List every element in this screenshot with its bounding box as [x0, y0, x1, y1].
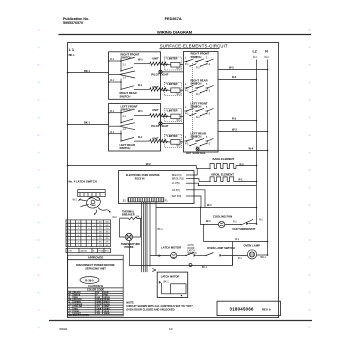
wire CA pin down [194, 190, 205, 207]
svg-text:BK-1: BK-1 [84, 69, 91, 73]
svg-text:W-1: W-1 [206, 219, 211, 223]
svg-text:W-1: W-1 [110, 111, 115, 113]
svg-text:9: 9 [78, 245, 79, 247]
svg-text:W-4: W-4 [249, 147, 254, 151]
wire L1 to box C [68, 124, 109, 126]
svg-text:SERVICING UNIT: SERVICING UNIT [85, 267, 106, 271]
svg-text:265: 265 [99, 241, 102, 243]
UL oval logo [80, 277, 99, 284]
svg-text:BK-1: BK-1 [164, 281, 170, 283]
svg-text:4: 4 [78, 228, 79, 230]
svg-text:L2: L2 [253, 50, 257, 54]
svg-text:2: 2 [68, 225, 69, 227]
svg-text:SWITCH: SWITCH [121, 107, 132, 111]
svg-text:295: 295 [106, 241, 109, 243]
svg-text:255: 255 [99, 238, 102, 240]
svg-text:BK: BK [136, 216, 140, 218]
svg-text:6: 6 [68, 238, 69, 240]
svg-text:REV. A: REV. A [262, 307, 271, 311]
svg-text:BROIL P(2): BROIL P(2) [172, 179, 184, 181]
svg-text:R-39-5: R-39-5 [85, 278, 94, 282]
wire bundle from connector [142, 202, 156, 272]
svg-text:* LIMITER: * LIMITER [166, 57, 178, 61]
svg-text:215: 215 [99, 225, 102, 227]
limiter C2 [164, 134, 181, 147]
svg-text:* LIMITER: * LIMITER [166, 134, 178, 138]
L2 bus wire [256, 60, 258, 225]
svg-text:SURFACE-ELEMENTS-CIRCUIT: SURFACE-ELEMENTS-CIRCUIT [160, 44, 228, 49]
svg-text:DISCONNECT POWER BEFORE: DISCONNECT POWER BEFORE [76, 263, 115, 267]
svg-text:CAUTION W: CAUTION W [88, 284, 103, 288]
svg-text:7: 7 [68, 241, 69, 243]
svg-text:x: x [94, 225, 95, 227]
switch RIGHT REAR SWITCH [108, 77, 134, 90]
pilot light (C) [159, 122, 162, 125]
svg-text:BK-1: BK-1 [158, 229, 164, 231]
surface element box C [109, 104, 161, 152]
svg-text:R-2: R-2 [240, 162, 245, 166]
svg-text:8: 8 [78, 241, 79, 243]
part number box [217, 301, 280, 315]
limiter A2 [164, 83, 181, 96]
svg-text:R-2: R-2 [232, 75, 237, 79]
chart legend row [66, 248, 111, 252]
svg-text:OVEN DOOR CLOSED AND UNLOCKED.: OVEN DOOR CLOSED AND UNLOCKED. [126, 307, 175, 311]
svg-text:WIRING DIAGRAM: WIRING DIAGRAM [157, 30, 193, 35]
svg-text:CIRCUIT SHOWN WITH ALL CONTROL: CIRCUIT SHOWN WITH ALL CONTROLS SET TO "… [126, 304, 194, 308]
svg-text:x: x [94, 238, 95, 240]
switch body plate [78, 190, 106, 197]
svg-text:APPROVED: APPROVED [88, 256, 103, 260]
switch block RIGHT FRONT [185, 52, 214, 70]
svg-text:W-1: W-1 [177, 94, 182, 96]
svg-text:N: N [265, 50, 268, 54]
svg-text:245: 245 [99, 235, 102, 237]
wire probe bottom loop [130, 241, 233, 266]
svg-text:EOC6 V6: EOC6 V6 [135, 178, 145, 180]
switch knob blob [85, 195, 102, 210]
svg-text:R-1: R-1 [138, 135, 143, 139]
svg-text:* LIMITER: * LIMITER [166, 108, 178, 112]
svg-text:LARGE: LARGE [80, 250, 87, 253]
EOC pin wires routing [194, 168, 199, 185]
wire box B to N (top) [218, 69, 268, 71]
pointer arrows [79, 198, 89, 206]
svg-text:W-1: W-1 [110, 80, 115, 82]
svg-text:W-2: W-2 [229, 65, 234, 69]
svg-text:8: 8 [68, 245, 69, 247]
svg-text:NOTE:: NOTE: [126, 300, 134, 304]
color code table [68, 288, 124, 317]
svg-text:W-1: W-1 [235, 239, 240, 241]
main diagram border box [68, 43, 279, 318]
switch LEFT REAR SWITCH [108, 129, 134, 142]
svg-text:2: 2 [78, 221, 79, 223]
wire W-2 from L1 border to bake circuit [68, 165, 197, 167]
temperature probe [120, 219, 126, 238]
svg-text:BK-1: BK-1 [69, 53, 76, 57]
svg-text:5995376570: 5995376570 [63, 21, 83, 25]
svg-text:318045066: 318045066 [230, 307, 255, 312]
svg-text:BREAKER: BREAKER [122, 213, 135, 217]
svg-text:275: 275 [106, 235, 109, 237]
latch motor detail box [157, 272, 188, 297]
svg-text:245: 245 [106, 225, 109, 227]
svg-text:W-1: W-1 [73, 200, 78, 202]
svg-text:FAN THERMOSTAT: FAN THERMOSTAT [233, 227, 257, 231]
svg-text:265: 265 [106, 231, 109, 233]
svg-text:OVEN LAMP: OVEN LAMP [244, 244, 261, 248]
svg-text:W-1: W-1 [110, 132, 115, 134]
svg-text:R-3: R-3 [232, 116, 237, 120]
svg-text:ELECTRONIC OVEN CONTROL: ELECTRONIC OVEN CONTROL [126, 175, 161, 177]
feed wedge node [120, 123, 136, 130]
wire to N between fan and lamp [204, 241, 268, 243]
svg-text:BK-1: BK-1 [202, 267, 208, 269]
svg-text:LATCH MOTOR: LATCH MOTOR [161, 246, 181, 250]
svg-text:x: x [94, 231, 95, 233]
EOC connector strip J1 [128, 198, 164, 202]
surface switch box B [184, 52, 219, 153]
svg-text:No. 4 LATCH SWITCH: No. 4 LATCH SWITCH [69, 179, 97, 183]
svg-text:W-2: W-2 [146, 162, 151, 166]
wire W-1 long [156, 207, 257, 209]
svg-text:R-1: R-1 [239, 177, 244, 181]
svg-text:W-4: W-4 [265, 57, 270, 59]
svg-text:COOLING FAN: COOLING FAN [213, 215, 232, 219]
wire L1 to box A [68, 72, 109, 74]
approved box [68, 255, 124, 260]
svg-text:W-1: W-1 [177, 68, 182, 70]
svg-text:LATCH: LATCH [188, 249, 196, 252]
svg-text:285: 285 [106, 238, 109, 240]
svg-text:AUTO: AUTO [188, 244, 195, 247]
svg-text:SWITCH: SWITCH [120, 146, 131, 150]
svg-text:W-1: W-1 [110, 59, 115, 61]
svg-text:W-1: W-1 [138, 109, 143, 113]
svg-text:305: 305 [106, 245, 109, 247]
wire BAT pin down [194, 196, 201, 207]
svg-text:W-1: W-1 [138, 57, 143, 61]
svg-text:BAT P(8): BAT P(8) [172, 195, 181, 198]
svg-text:BR-1: BR-1 [261, 257, 267, 259]
svg-text:L 1: L 1 [69, 48, 74, 52]
svg-text:x: x [88, 241, 89, 243]
svg-text:3: 3 [68, 228, 69, 230]
footer rule [49, 320, 312, 322]
svg-text:CA P(7): CA P(7) [172, 189, 180, 192]
svg-text:BTU: BTU [105, 251, 110, 253]
surface element box A [109, 52, 161, 100]
svg-text:HOT SURFACE: HOT SURFACE [186, 151, 206, 155]
electronic oven control box U1 [119, 171, 195, 204]
header rule [59, 34, 312, 36]
wire box B to L2 (top) [218, 79, 257, 81]
svg-text:R-1: R-1 [138, 83, 143, 87]
svg-text:x: x [88, 228, 89, 230]
svg-text:BAKE ELEMENT: BAKE ELEMENT [213, 157, 235, 161]
svg-text:08/02: 08/02 [60, 327, 68, 331]
wire L1 pin to L2 area [199, 185, 257, 187]
svg-text:FED367A: FED367A [165, 16, 182, 21]
switch block LEFT REAR [185, 132, 214, 150]
svg-text:7: 7 [78, 238, 79, 240]
svg-text:3: 3 [78, 225, 79, 227]
svg-text:4: 4 [68, 231, 69, 233]
svg-text:UNIT: UNIT [152, 108, 159, 112]
feed wedge node [120, 71, 136, 78]
switch chart table [66, 220, 111, 247]
svg-text:PILOT LIGHT: PILOT LIGHT [151, 124, 168, 128]
N bus wire [267, 60, 269, 256]
svg-text:L1 P(9): L1 P(9) [172, 183, 180, 185]
svg-text:W-3: W-3 [232, 127, 237, 131]
svg-text:BKE P(1): BKE P(1) [172, 175, 182, 177]
svg-text:5: 5 [68, 235, 69, 237]
svg-text:x: x [88, 235, 89, 237]
svg-text:255: 255 [106, 228, 109, 230]
svg-text:W-1: W-1 [177, 120, 182, 122]
svg-text:PLUS: PLUS [99, 251, 105, 253]
svg-text:275: 275 [99, 245, 102, 247]
svg-text:W-1: W-1 [177, 146, 182, 148]
svg-text:205: 205 [99, 221, 102, 223]
limiter A1 [164, 57, 181, 70]
svg-text:W-1: W-1 [207, 203, 212, 207]
hot surface pilot light [196, 148, 199, 151]
svg-text:10: 10 [169, 327, 173, 331]
svg-text:BROIL ELEMENT: BROIL ELEMENT [212, 173, 235, 177]
svg-text:ALL BLACK/W WIRING: ALL BLACK/W WIRING [69, 314, 90, 317]
svg-text:PILOT LIGHT: PILOT LIGHT [151, 72, 168, 76]
svg-text:LOW: LOW [67, 251, 72, 253]
limiter C1 [164, 109, 181, 122]
svg-text:BK-1: BK-1 [84, 121, 91, 125]
svg-text:PROBE: PROBE [124, 245, 133, 249]
wire box B to N (lower) [218, 131, 268, 133]
svg-text:235: 235 [99, 231, 102, 233]
svg-text:5: 5 [78, 231, 79, 233]
pilot light (A) [159, 70, 162, 73]
switch block LEFT FRONT [185, 102, 214, 120]
svg-text:UNIT: UNIT [152, 56, 159, 60]
svg-text:OVEN LAMP SWITCH: OVEN LAMP SWITCH [207, 246, 235, 250]
svg-text:* LIMITER: * LIMITER [166, 82, 178, 86]
mechanical link dashes [192, 63, 194, 140]
page edge perforation dots [38, 29, 311, 328]
svg-text:1: 1 [68, 221, 69, 223]
svg-text:SWITCH: SWITCH [121, 56, 132, 60]
tail wire [98, 208, 110, 212]
svg-text:LATCH MOTOR: LATCH MOTOR [161, 275, 180, 279]
switch block RIGHT REAR [185, 79, 214, 97]
svg-text:225: 225 [99, 228, 102, 230]
svg-text:6: 6 [78, 235, 79, 237]
wire box B to L2 (lower) [218, 120, 257, 122]
svg-text:SWITCH: SWITCH [120, 94, 131, 98]
svg-text:230: 230 [106, 221, 109, 223]
svg-text:W-2: W-2 [113, 217, 118, 219]
